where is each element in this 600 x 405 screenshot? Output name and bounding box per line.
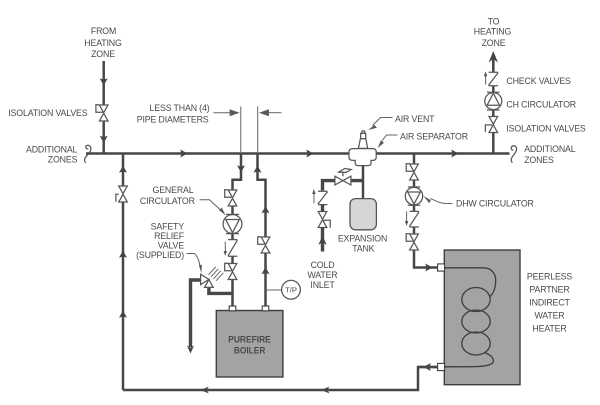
isolation valve DHW lower (414,242) (410, 234, 419, 250)
flow arrow up on left riser (top) (119, 166, 127, 173)
svg-text:ADDITIONAL: ADDITIONAL (524, 144, 576, 154)
svg-text:COLD: COLD (311, 260, 335, 270)
air vent body (361, 133, 366, 138)
svg-text:DHW CIRCULATOR: DHW CIRCULATOR (456, 198, 534, 208)
check valve CH (493.3,79) (488, 72, 498, 86)
pipe: CH riser x=493.3 (492, 57, 495, 153)
svg-text:ADDITIONAL: ADDITIONAL (26, 144, 78, 154)
fill valve handle (339, 172, 347, 176)
svg-text:FROM: FROM (91, 26, 116, 36)
flow arrow down on drop (100, 78, 108, 85)
flow arrow left on bottom main (x=320) (321, 387, 329, 394)
svg-text:PARTNER: PARTNER (529, 285, 569, 295)
heater coil entry (444, 268, 495, 297)
svg-text:AIR SEPARATOR: AIR SEPARATOR (400, 132, 468, 142)
flow arrow up on boiler supply (lower) (262, 267, 270, 274)
svg-text:TO: TO (488, 17, 500, 27)
heater coil loop 1 (462, 288, 490, 312)
flow arrow down on drop (lower) (100, 136, 108, 143)
pipe: DHW drop x=414 (414, 153, 437, 268)
svg-text:VALVE: VALVE (158, 241, 185, 251)
heater coil loop 2 (462, 310, 490, 333)
svg-text:GENERAL: GENERAL (153, 185, 194, 195)
svg-text:(SUPPLIED): (SUPPLIED) (136, 250, 184, 260)
heater coil loop 3 (462, 332, 490, 355)
pipe: heater return to bottom main (418, 366, 438, 369)
svg-text:ISOLATION VALVES: ISOLATION VALVES (506, 123, 586, 133)
svg-text:LESS THAN (4): LESS THAN (4) (150, 103, 210, 113)
leader arrow to air separator (382, 135, 398, 142)
boiler block (216, 311, 283, 378)
wire: main supply header y=153 (86, 152, 510, 155)
isolation valve CH (493.3,124.5) (489, 117, 498, 133)
svg-text:HEATER: HEATER (532, 324, 566, 334)
svg-text:CHECK VALVES: CHECK VALVES (506, 76, 571, 86)
wire: bottom return main y=390 (123, 367, 437, 390)
general circulator (232.5,224) (226, 214, 239, 233)
svg-text:PEERLESS: PEERLESS (527, 272, 573, 282)
air separator cone neck (358, 139, 367, 149)
svg-text:TANK: TANK (352, 244, 374, 254)
pipe: cold water inlet (thick) (321, 205, 324, 252)
isolation valve on left riser (123,194) (119, 186, 128, 202)
check valve DHW (414,219) (409, 211, 419, 227)
svg-text:AIR VENT: AIR VENT (395, 114, 435, 124)
dimension arrow right (268, 112, 282, 114)
flow arrow up on left riser (lower) (119, 311, 127, 318)
pipe: boiler supply rise with jog x=257.5->265.5 (258, 153, 266, 307)
svg-text:WATER: WATER (307, 270, 337, 280)
isolation valve on heating drop (103.7,113) (99, 105, 108, 121)
flow arrow on main line x=310 (306, 150, 313, 158)
leader arrow to air vent (373, 118, 393, 126)
air separator body (349, 149, 376, 166)
flow arrow up on left riser (middle) (119, 251, 127, 258)
isolation valve cold water (322.5,219.5) (318, 212, 327, 228)
svg-text:ISOLATION VALVES: ISOLATION VALVES (8, 108, 88, 118)
leader arrow from (SUPPLIED) (187, 254, 200, 266)
leader arrow from DHW circulator label (431, 199, 453, 204)
svg-text:T/P: T/P (285, 286, 297, 295)
pipe: boiler fill line (thick) (323, 181, 364, 191)
safety relief valve body (201, 274, 209, 284)
boiler stub left (229, 306, 236, 311)
SRV inlet pipe to boiler return (209, 287, 233, 293)
dimension arrow left (214, 112, 232, 114)
pipe: separator to expansion tank (362, 166, 365, 199)
dimension extension line 1 (240, 107, 242, 153)
pipe break squiggle right (additional zones) (511, 146, 516, 163)
svg-text:RELIEF: RELIEF (154, 231, 185, 241)
fill valve (globe) (335, 176, 351, 185)
flow arrow left near heater outlet (424, 363, 431, 371)
T/P sensor (266, 289, 283, 291)
svg-text:ZONES: ZONES (48, 154, 78, 164)
svg-text:BOILER: BOILER (234, 345, 266, 355)
svg-text:CH CIRCULATOR: CH CIRCULATOR (506, 100, 576, 110)
svg-text:SAFETY: SAFETY (151, 222, 185, 232)
pipe: boiler return drop with jog x=241->232.5 (233, 153, 242, 307)
flow arrow up on boiler supply (top) (254, 166, 262, 173)
isolation valve boiler return lower (232.5,271.5) (228, 264, 237, 280)
svg-text:HEATING: HEATING (84, 38, 122, 48)
CH flow arrow to heating zone (thick) (489, 51, 498, 63)
DHW circulator (414,196) (408, 187, 420, 205)
heater coil exit (444, 353, 493, 367)
CH circulator (493.3,101) (487, 92, 500, 110)
SRV spring hatches (209, 267, 224, 281)
heater stub top (438, 264, 445, 271)
svg-text:ZONE: ZONE (91, 49, 115, 59)
svg-text:INLET: INLET (310, 280, 335, 290)
DHW flow arrow into heater (425, 264, 432, 272)
svg-text:HEATING: HEATING (474, 27, 512, 37)
flow arrow up on boiler supply (middle) (262, 206, 270, 213)
flow arrow down on boiler return (237, 165, 245, 172)
svg-text:PUREFIRE: PUREFIRE (228, 334, 271, 344)
isolation valve boiler supply (265.5,245) (261, 237, 270, 253)
check valve boiler return (232.5,248) (228, 240, 237, 257)
flow arrow on main line x=455 (451, 150, 458, 158)
SRV discharge pipe (thick elbow, down to drain) (191, 280, 201, 347)
svg-text:CIRCULATOR: CIRCULATOR (140, 196, 195, 206)
expansion tank (350, 199, 376, 230)
svg-text:ZONE: ZONE (482, 38, 506, 48)
pipe: left return riser x=123 (122, 153, 125, 390)
svg-text:WATER: WATER (534, 311, 564, 321)
svg-text:ZONES: ZONES (524, 155, 554, 165)
cold water flow arrow up (318, 236, 326, 246)
SRV drain arrow (187, 346, 194, 354)
dimension extension line 2 (257, 107, 259, 153)
isolation valve DHW upper (414,172) (410, 164, 419, 180)
svg-text:EXPANSION: EXPANSION (338, 234, 387, 244)
boiler stub right (262, 306, 269, 311)
svg-text:PIPE DIAMETERS: PIPE DIAMETERS (137, 114, 209, 124)
flow arrow on main line x=183 (180, 150, 187, 158)
pipe break squiggle left (additional zones) (85, 145, 91, 162)
leader arrow to general circulator (200, 200, 221, 210)
heater stub bottom (438, 363, 445, 370)
isolation valve boiler return upper (232.5,198) (228, 190, 237, 206)
flow arrow left on bottom main (x=197) (200, 387, 208, 394)
water heater block (444, 250, 520, 385)
pipe: from heating zone drop x=103.7 (102, 61, 105, 153)
check valve cold water (322.5,197.7) (318, 191, 328, 204)
svg-text:INDIRECT: INDIRECT (529, 298, 570, 308)
